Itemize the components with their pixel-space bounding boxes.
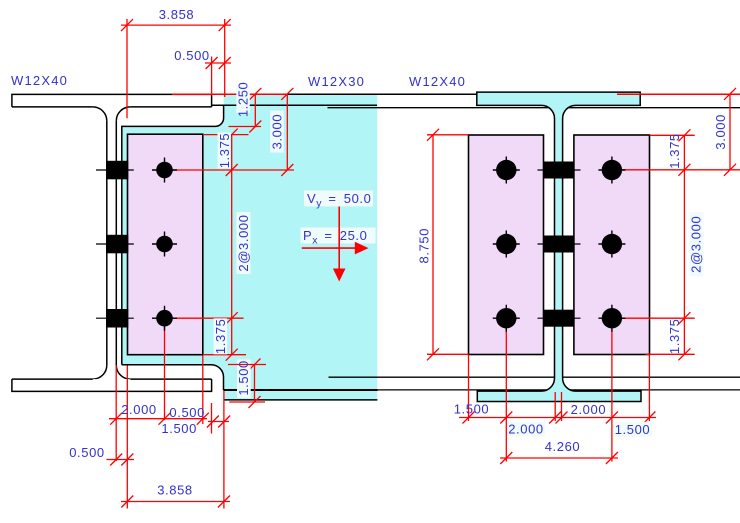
bolt row3 extension left xyxy=(165,317,244,319)
beam W12X30 bottom flange top line (far side) xyxy=(378,389,740,391)
bolt B6 plate2 xyxy=(493,305,520,332)
svg-text:1.375: 1.375 xyxy=(213,319,228,355)
dimension 1.375 top-left xyxy=(204,129,249,355)
shear plate 2 (right connection near side) xyxy=(469,135,544,355)
svg-text:0.500: 0.500 xyxy=(169,405,205,420)
bolt B2 plate1 xyxy=(152,232,177,257)
svg-text:1.250: 1.250 xyxy=(236,82,251,118)
svg-text:W12X40: W12X40 xyxy=(409,74,466,89)
beam W12X30 top flange underside line (near end) xyxy=(212,104,377,106)
bolt B1 plate1 xyxy=(152,158,177,183)
svg-text:2.000: 2.000 xyxy=(121,402,157,417)
dimension 1.375 bottom-left tick xyxy=(226,349,238,361)
girder web bolt rect row3 left xyxy=(96,309,134,328)
girder W12X40 left top flange xyxy=(12,94,212,107)
text masks xyxy=(214,86,704,437)
svg-text:2.000: 2.000 xyxy=(571,402,607,417)
dimension 1.375 / 2@3.000 / 1.375 right vertical xyxy=(678,129,690,360)
girder W12X40 left web xyxy=(107,121,117,365)
girder web bolt rect row3 right xyxy=(538,310,581,327)
red extension overlay on beam top line left xyxy=(172,93,288,95)
beam W12X30 web elevation cyan fill (coped) xyxy=(122,94,377,400)
red extension overlay on beam top line right xyxy=(617,93,740,95)
beam W12X30 top cope outline xyxy=(122,106,224,365)
bottom-left extension verticals xyxy=(116,327,224,509)
svg-text:2.000: 2.000 xyxy=(508,422,544,437)
svg-text:1.500: 1.500 xyxy=(454,402,490,417)
beam W12X30 bottom flange bottom line xyxy=(224,399,378,401)
plate1 bottom extension xyxy=(203,354,246,356)
svg-text:W12X40: W12X40 xyxy=(11,73,68,88)
girder web bolt rect row2 right xyxy=(538,236,581,253)
girder W12X40 left web fillets xyxy=(93,107,131,379)
bottom-right extension verticals xyxy=(469,328,650,462)
bolt B4 plate2 xyxy=(493,157,520,184)
dimension 1.500 left vertical xyxy=(229,359,265,409)
svg-text:3.000: 3.000 xyxy=(713,114,728,150)
dimension chain bottom-right 1.500 / 2.000 / 2.000 / 1.500 xyxy=(459,412,656,424)
svg-text:3.858: 3.858 xyxy=(159,7,195,22)
svg-text:1.500: 1.500 xyxy=(236,360,251,396)
svg-text:0.500: 0.500 xyxy=(69,445,105,460)
girder web bolt rect row1 right xyxy=(538,162,581,179)
dimension 3.000 right xyxy=(724,88,736,176)
dimension 3.858 top xyxy=(121,19,231,118)
shear plate 1 (left connection) xyxy=(128,134,203,355)
svg-text:1.375: 1.375 xyxy=(217,133,232,169)
svg-text:4.260: 4.260 xyxy=(545,439,581,454)
bolt row1 extension left xyxy=(165,169,295,171)
svg-text:2@3.000: 2@3.000 xyxy=(689,216,704,273)
bolt row1 extension right xyxy=(620,169,740,171)
svg-text:0.500: 0.500 xyxy=(174,48,210,63)
dimension 3.858 bottom xyxy=(121,496,230,508)
dimension 0.500 top xyxy=(205,57,231,94)
beam W12X30 bottom inner web line xyxy=(329,376,740,378)
svg-text:2@3.000: 2@3.000 xyxy=(236,214,251,271)
plate3 top extension xyxy=(650,134,695,136)
svg-text:3.858: 3.858 xyxy=(157,483,193,498)
bolt B9 plate3 xyxy=(598,305,625,332)
svg-text:1.500: 1.500 xyxy=(615,422,651,437)
beam W12X30 top flange line xyxy=(212,93,740,95)
shear plate 3 (right connection far side) xyxy=(574,135,650,355)
load arrow Px (right) xyxy=(302,242,369,255)
svg-text:W12X30: W12X30 xyxy=(308,74,365,89)
dimension 8.750 xyxy=(427,129,469,360)
beam W12X30 top flange underside line (far side) xyxy=(328,107,740,109)
svg-text:3.000: 3.000 xyxy=(270,114,285,150)
extension line overlay at cope (1.500 dim top) xyxy=(228,364,266,366)
girder web bolt rect row1 left xyxy=(96,161,134,180)
dimension row 2.000 / 1.500 bottom-left xyxy=(109,413,209,425)
beam W12X30 bottom cope outline xyxy=(122,365,224,391)
girder web bolt rect row2 left xyxy=(96,235,134,254)
dimension 0.500 bottom (cope) xyxy=(207,416,230,428)
dimension 3.000 left xyxy=(281,88,293,176)
bolt B5 plate2 xyxy=(493,231,520,258)
dimension 1.250 xyxy=(229,88,262,133)
girder W12X40 left bottom flange xyxy=(12,379,212,391)
svg-text:1.375: 1.375 xyxy=(667,133,682,169)
dimension 2@3.000 left ticks xyxy=(226,312,238,324)
plate3 bottom extension xyxy=(645,353,694,355)
svg-text:8.750: 8.750 xyxy=(417,228,432,264)
bolt B8 plate3 xyxy=(598,231,625,258)
bolt B3 plate1 xyxy=(152,306,177,331)
dimension 0.500 left lower xyxy=(107,454,135,466)
svg-text:1.375: 1.375 xyxy=(667,319,682,355)
beam W12X30 bottom flange top line (near end thick) xyxy=(224,389,378,391)
bolt row3 extension right xyxy=(620,317,695,319)
load arrow Vy (down) xyxy=(333,207,346,282)
girder W12X40 right cross-section cyan xyxy=(477,92,641,401)
bolt B7 plate3 xyxy=(598,157,625,184)
beam W12X30 bottom flange fill xyxy=(224,391,378,400)
svg-text:1.500: 1.500 xyxy=(161,421,197,436)
dimension 4.260 xyxy=(500,452,618,464)
